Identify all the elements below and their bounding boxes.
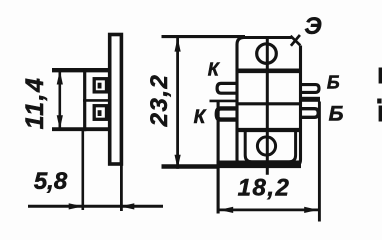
svg-text:Б: Б <box>329 103 344 126</box>
svg-text:11,4: 11,4 <box>21 77 49 130</box>
svg-text:К: К <box>208 60 221 80</box>
svg-text:Б: Б <box>327 73 340 93</box>
svg-text:5,8: 5,8 <box>34 168 68 195</box>
svg-text:Э: Э <box>304 13 321 40</box>
svg-text:23,2: 23,2 <box>146 74 173 128</box>
svg-text:К: К <box>194 107 207 128</box>
svg-text:18,2: 18,2 <box>238 175 291 202</box>
